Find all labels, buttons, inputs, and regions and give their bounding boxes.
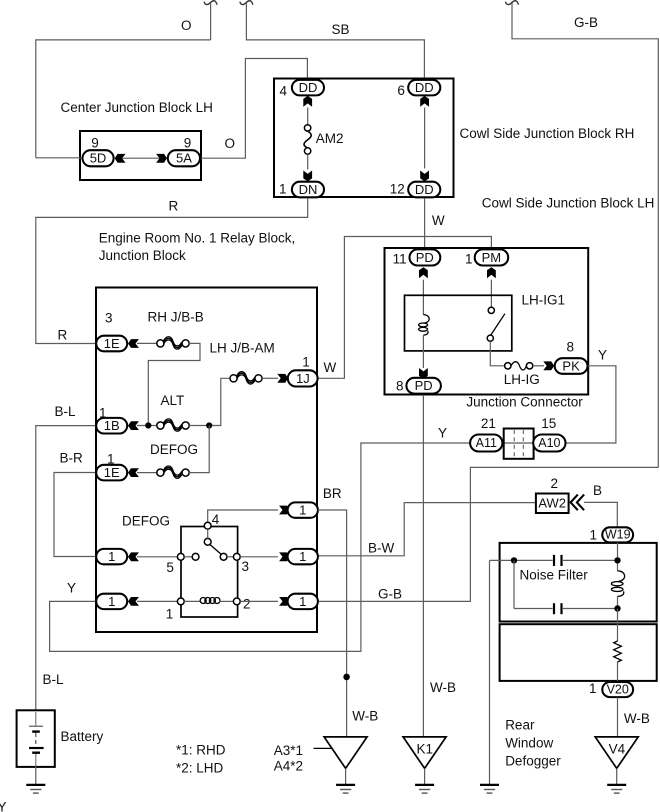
wire fuse to PK <box>533 365 544 367</box>
svg-text:Y: Y <box>598 348 607 363</box>
svg-text:B-L: B-L <box>43 672 65 687</box>
svg-text:5A: 5A <box>176 151 192 166</box>
wire left branch down <box>513 560 515 608</box>
arrow into left coil connector <box>128 597 139 606</box>
wire A3 apex to ground <box>345 768 347 784</box>
svg-text:4: 4 <box>280 84 288 99</box>
junction dot right bottom <box>614 605 620 611</box>
svg-text:O: O <box>181 18 192 33</box>
ground triangle K1 <box>403 737 446 769</box>
svg-text:K1: K1 <box>417 742 434 757</box>
svg-text:21: 21 <box>481 416 496 431</box>
svg-text:2: 2 <box>243 597 251 612</box>
wire SB vertical+horizontal to DD6 <box>246 3 424 81</box>
svg-text:A4*2: A4*2 <box>274 759 303 774</box>
svg-text:1: 1 <box>166 607 174 622</box>
connector PK pin 8 <box>555 358 588 374</box>
wire SB continuation hook <box>240 1 253 5</box>
wire top row right of cap <box>563 559 618 561</box>
svg-text:RH J/B-B: RH J/B-B <box>148 310 204 325</box>
wire left stub out of box down to ground <box>489 560 491 784</box>
svg-text:V4: V4 <box>609 742 626 757</box>
wire pin3 to B-W connector <box>240 556 278 558</box>
wire K1 apex to ground <box>424 768 426 784</box>
svg-text:Junction Block: Junction Block <box>99 248 186 263</box>
wire B-W from relay block to AW2 <box>318 503 536 556</box>
box Noise Filter <box>500 543 657 622</box>
svg-text:5: 5 <box>166 560 174 575</box>
connector PM pin 1 <box>475 249 509 265</box>
ground (noise filter stub) <box>480 785 499 793</box>
svg-text:1: 1 <box>589 681 597 696</box>
svg-text:LH-IG1: LH-IG1 <box>522 293 566 308</box>
svg-text:R: R <box>58 328 68 343</box>
svg-text:1: 1 <box>299 594 306 609</box>
svg-text:W-B: W-B <box>352 709 378 724</box>
wire W-B from PD8 down to K1 <box>422 395 424 737</box>
fuse AM2 <box>304 125 311 154</box>
svg-text:A11: A11 <box>476 436 497 450</box>
pin 4 circle of defog relay <box>204 522 211 529</box>
svg-text:B-R: B-R <box>60 451 84 466</box>
svg-text:1: 1 <box>590 528 598 543</box>
connector 1 (left, pin5 row) <box>96 549 127 564</box>
svg-text:LH J/B-AM: LH J/B-AM <box>210 341 275 356</box>
svg-text:11: 11 <box>393 252 407 267</box>
svg-text:1: 1 <box>108 594 115 609</box>
ground triangle V4 <box>595 737 638 769</box>
svg-text:G-B: G-B <box>378 587 402 602</box>
wire W from DD12 to PD11 <box>424 198 426 249</box>
connector 1E pin 1 <box>96 465 127 481</box>
wire arrow to DEFOG fuse <box>137 472 157 474</box>
battery cells <box>29 712 43 767</box>
arrow into 1B <box>128 421 139 430</box>
connector PD pin 8 <box>406 378 441 394</box>
svg-text:1: 1 <box>279 182 287 197</box>
wire AM2 to DN <box>307 154 309 169</box>
arrow right into 1J <box>277 374 288 383</box>
switch arm defog <box>210 544 223 555</box>
svg-text:W: W <box>432 213 445 228</box>
ground (K1) <box>415 785 434 793</box>
double chevron at AW2 <box>571 495 585 511</box>
svg-text:3: 3 <box>105 311 113 326</box>
arrow into 1E pin3 <box>128 339 139 348</box>
connector 5A <box>168 150 200 166</box>
svg-text:12: 12 <box>390 182 405 197</box>
arrow into 5A <box>156 154 167 163</box>
wire inductor to bottom dot <box>617 596 619 608</box>
wire O from 5A up over to DD4 <box>200 59 307 159</box>
wire pin2 to G-B connector <box>240 600 278 602</box>
wire V4 apex to ground <box>616 768 618 784</box>
label A3*1 A4*2 <box>274 743 303 774</box>
svg-text:ALT: ALT <box>161 393 185 408</box>
svg-text:15: 15 <box>541 416 556 431</box>
svg-text:1: 1 <box>465 252 473 267</box>
svg-text:B: B <box>593 483 602 498</box>
wire B from AW2 to W19 <box>584 502 617 527</box>
defog relay coil <box>200 598 220 604</box>
wire PD11 to relay coil <box>422 280 424 315</box>
svg-text:3: 3 <box>242 559 250 574</box>
wire DEFOG fuse up to ALT row <box>189 426 209 473</box>
svg-text:Junction Connector: Junction Connector <box>466 395 583 410</box>
fuse DEFOG <box>157 466 189 478</box>
wire noise filter top row <box>490 559 553 561</box>
svg-text:*2: LHD: *2: LHD <box>176 761 224 776</box>
svg-text:Cowl Side Junction Block LH: Cowl Side Junction Block LH <box>482 196 655 211</box>
box Engine Room No.1 Relay Block <box>96 288 317 633</box>
svg-text:1: 1 <box>302 355 310 370</box>
wire RH J/B-B fuse to ALT row <box>148 343 200 425</box>
pin 5 circle <box>177 553 184 560</box>
fuse LH-IG <box>505 362 533 370</box>
wire DD6 to DD12 <box>424 108 426 169</box>
box Center Junction Block LH <box>80 131 201 180</box>
svg-text:R: R <box>169 199 179 214</box>
wire pin1 to coil <box>184 600 200 602</box>
connector DD pin 12 <box>408 182 440 198</box>
connector 1 (BR row) <box>288 502 318 517</box>
svg-text:LH-IG: LH-IG <box>504 372 540 387</box>
wire arrow to fuse RH J/B-B <box>137 342 157 344</box>
connector DN pin 1 <box>292 182 324 198</box>
svg-text:Cowl Side Junction Block RH: Cowl Side Junction Block RH <box>460 126 635 141</box>
relay coil (LH-IG1) <box>419 315 430 336</box>
svg-text:Rear: Rear <box>505 718 535 733</box>
wire G-B continuation hook <box>506 1 519 5</box>
svg-text:AW2: AW2 <box>538 496 566 511</box>
connector 5D <box>83 150 114 166</box>
svg-text:9: 9 <box>91 135 99 150</box>
svg-text:9: 9 <box>184 135 192 150</box>
svg-text:Center Junction Block LH: Center Junction Block LH <box>61 100 213 115</box>
pin 2 circle defog <box>233 598 240 605</box>
note *1 RHD *2 LHD <box>176 743 226 776</box>
pin 1 circle defog <box>177 598 184 605</box>
wire O vertical from hook <box>210 3 212 40</box>
pin 3 circle <box>233 553 240 560</box>
connector A10 <box>533 435 565 452</box>
wire contact right to pin3 <box>227 556 233 558</box>
wire fuse to 1J <box>262 377 278 379</box>
svg-text:6: 6 <box>397 83 405 98</box>
junction dot right top <box>614 557 620 563</box>
wire V20 to V4 <box>617 697 619 737</box>
connector 1 (G-B row) <box>288 594 318 609</box>
svg-text:1: 1 <box>299 503 306 518</box>
ground (battery) <box>26 785 45 793</box>
wire W branch 1J to PM <box>318 237 492 379</box>
arrow down into PD8 <box>419 368 428 379</box>
connector PD pin 11 <box>410 249 441 265</box>
svg-text:1E: 1E <box>104 465 120 480</box>
svg-text:PK: PK <box>562 358 580 373</box>
junction dot left <box>511 557 517 563</box>
arrow up into DD6 <box>420 96 429 107</box>
svg-text:1E: 1E <box>104 336 120 351</box>
svg-text:1: 1 <box>299 549 306 564</box>
svg-text:DEFOG: DEFOG <box>122 514 170 529</box>
svg-text:O: O <box>225 136 236 151</box>
wire bottom row left of cap <box>514 608 553 610</box>
svg-text:SB: SB <box>332 22 350 37</box>
svg-text:5D: 5D <box>90 151 107 166</box>
switch contact top (from PM) <box>488 307 494 313</box>
connector A11 <box>470 435 502 452</box>
ground triangle A3 <box>324 737 367 769</box>
fuse RH J/B-B <box>157 337 189 349</box>
wire arrow to ALT fuse <box>137 425 157 427</box>
svg-text:PD: PD <box>415 378 433 393</box>
junction connector block with dashed lines <box>504 429 534 459</box>
connector V20 <box>602 682 633 697</box>
fuse LH J/B-AM <box>230 372 262 384</box>
capacitor C bottom <box>554 603 562 614</box>
wire PM to switch contact <box>490 280 492 308</box>
arrow down into DN <box>303 171 312 182</box>
switch contact right circle <box>220 553 227 560</box>
svg-text:PM: PM <box>482 250 502 265</box>
svg-text:Y: Y <box>0 800 7 812</box>
switch contact bottom <box>487 335 493 341</box>
svg-text:W-B: W-B <box>430 680 456 695</box>
noise filter AW2 box <box>536 494 569 514</box>
svg-text:DD: DD <box>415 182 434 197</box>
wire BR right and down to ground A3 <box>318 510 347 737</box>
wire G-B top: down, right, down right edge <box>512 3 658 467</box>
wire Y from PK to A10 <box>566 366 616 443</box>
arrow right into B-W connector <box>279 552 290 561</box>
svg-text:Y: Y <box>67 581 76 596</box>
box Cowl Side Junction Block RH <box>274 79 454 198</box>
wire bottom row right of cap <box>563 608 618 610</box>
svg-text:*1: RHD: *1: RHD <box>176 743 226 758</box>
inductor L noise filter <box>611 571 624 597</box>
svg-text:Noise Filter: Noise Filter <box>520 568 589 583</box>
label Engine Room No. 1 Relay Block, Junction Block <box>99 231 296 264</box>
wire W19 into box <box>617 542 619 560</box>
wire resistor to V20 <box>617 662 619 682</box>
connector 1B pin 1 <box>96 418 127 434</box>
arrow into 5D <box>115 154 126 163</box>
junction dot on BR ground wire <box>343 674 350 681</box>
svg-text:Battery: Battery <box>61 729 104 744</box>
connector DD pin 4 <box>292 80 324 96</box>
wire R from DN down-left to relay block <box>36 198 308 344</box>
switch contact left circle <box>192 553 199 560</box>
wire DD4 to fuse AM2 <box>307 108 309 126</box>
wire from left 1 connector to pin 5 <box>137 556 177 558</box>
svg-text:Engine Room No. 1 Relay Block,: Engine Room No. 1 Relay Block, <box>99 231 296 246</box>
arrow right into BR connector <box>279 506 290 515</box>
svg-text:V20: V20 <box>607 682 629 696</box>
svg-text:1B: 1B <box>104 418 120 433</box>
svg-text:W-B: W-B <box>624 711 650 726</box>
wire defog pin4 up to BR connector <box>208 510 278 522</box>
fuse ALT <box>157 419 189 431</box>
svg-text:W19: W19 <box>605 528 631 542</box>
defog relay box <box>181 527 238 618</box>
svg-text:BR: BR <box>323 486 342 501</box>
arrow up into PM <box>487 267 496 278</box>
arrow up into DD4 <box>303 96 312 107</box>
wire O top continuation hook <box>204 1 217 5</box>
svg-text:B-W: B-W <box>368 541 395 556</box>
wire pin4 to pivot <box>207 529 209 538</box>
svg-text:A10: A10 <box>538 436 560 450</box>
svg-text:Window: Window <box>505 736 553 751</box>
connector 1 (left, coil row) <box>96 594 127 609</box>
svg-text:W: W <box>324 360 337 375</box>
connector 1J pin 1 <box>288 370 318 386</box>
wire coil to PD8 <box>422 335 424 368</box>
battery box <box>17 710 55 767</box>
resistor R defogger <box>614 641 622 662</box>
svg-text:DD: DD <box>299 80 318 95</box>
wire G-B from right edge to relay block <box>318 467 658 601</box>
svg-text:DD: DD <box>415 80 434 95</box>
capacitor C top <box>554 555 562 566</box>
arrow into 1E defog <box>128 468 139 477</box>
svg-text:1: 1 <box>108 549 115 564</box>
svg-text:DN: DN <box>299 182 318 197</box>
svg-text:8: 8 <box>567 340 575 355</box>
box rear defogger lower <box>500 624 657 681</box>
arrow right into PK <box>543 361 554 370</box>
wire coil to pin2 <box>219 600 233 602</box>
wire to pin 1 of defog relay <box>137 600 177 602</box>
switch pivot circle defog <box>204 538 211 545</box>
arrow into left 1 connector <box>128 552 139 561</box>
wire O horizontal <box>36 40 211 158</box>
svg-text:PD: PD <box>416 250 434 265</box>
wire pin5 to contact left <box>184 556 192 558</box>
svg-text:G-B: G-B <box>574 15 598 30</box>
svg-text:Defogger: Defogger <box>505 754 561 769</box>
label Rear Window Defogger <box>505 718 561 769</box>
wire B-R loop <box>54 473 96 557</box>
relay box LH-IG1 <box>405 295 512 351</box>
box Cowl Side Junction Block LH <box>385 248 589 395</box>
connector DD pin 6 <box>408 80 440 96</box>
wire battery to ground <box>35 767 37 785</box>
svg-text:4: 4 <box>212 512 220 527</box>
wire O into 5D <box>36 157 83 159</box>
svg-text:A3*1: A3*1 <box>274 743 303 758</box>
junction dot RH J/B-B / ALT <box>145 422 151 428</box>
connector 1 (B-W row) <box>288 549 318 564</box>
arrow right into G-B connector <box>279 597 290 606</box>
wire B-L from 1B to battery <box>36 426 96 711</box>
ground (V4) <box>607 785 626 793</box>
svg-text:AM2: AM2 <box>316 131 344 146</box>
svg-text:Y: Y <box>438 426 447 441</box>
svg-text:1J: 1J <box>296 371 310 386</box>
svg-text:2: 2 <box>551 476 559 491</box>
leader line A3 to triangle <box>314 747 346 749</box>
wire Y from A11 down to relay block <box>50 443 566 651</box>
wire from bottom dot through divider to resistor <box>617 609 619 642</box>
svg-text:B-L: B-L <box>55 404 77 419</box>
ground (A3) <box>336 785 355 793</box>
junction dot ALT / DEFOG <box>206 422 212 428</box>
switch arm <box>491 314 505 335</box>
arrow up into PD11 <box>419 267 428 278</box>
connector W19 <box>602 527 633 542</box>
wire dot to inductor <box>617 564 619 572</box>
svg-text:DEFOG: DEFOG <box>150 442 198 457</box>
connector 1E pin 3 <box>96 336 127 352</box>
wire between 5D and 5A <box>120 157 162 159</box>
svg-text:8: 8 <box>396 379 404 394</box>
arrow down into DD12 <box>420 171 429 182</box>
wire ALT fuse to LH J/B-AM fuse <box>189 378 230 425</box>
wire switch to LH-IG fuse <box>490 341 504 366</box>
